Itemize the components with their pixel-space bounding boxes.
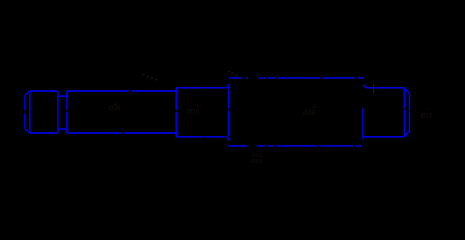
- section E bottom edge: [363, 136, 403, 138]
- left chamfer edge: [29, 91, 31, 133]
- D right face: [362, 108, 364, 140]
- leader above section D (faint): [228, 71, 241, 76]
- D left face: [228, 84, 230, 136]
- svg-text:Ø48: Ø48: [303, 109, 316, 116]
- left end face (dashed): [24, 95, 26, 129]
- D bottom-left shoulder diagonal: [227, 137, 230, 140]
- leader above section B (faint): [142, 74, 159, 81]
- right chamfer bottom diagonal: [404, 131, 409, 137]
- D/E top shoulder diagonal: [363, 85, 366, 88]
- section D top edge (dashed): [229, 77, 364, 79]
- groove bottom line: [58, 128, 67, 130]
- groove top line: [58, 95, 67, 97]
- groove right wall: [66, 91, 68, 133]
- section D bottom edge (dashed): [228, 145, 361, 147]
- groove left wall: [57, 91, 59, 133]
- right end face: [408, 94, 410, 131]
- svg-text:Ø26: Ø26: [109, 105, 122, 112]
- svg-text:Ø56: Ø56: [251, 159, 263, 165]
- svg-text:Ø35: Ø35: [187, 108, 200, 115]
- svg-text:Ø16: Ø16: [421, 113, 434, 120]
- left chamfer top diagonal: [25, 91, 30, 95]
- section B bottom edge: [67, 132, 176, 134]
- faint extension line over E top: [373, 84, 375, 94]
- section E top edge: [366, 87, 404, 89]
- svg-text:11: 11: [197, 102, 202, 107]
- section C top edge: [176, 87, 228, 89]
- right chamfer top diagonal: [404, 88, 409, 94]
- section B top edge: [67, 90, 176, 92]
- right chamfer edge: [403, 88, 405, 137]
- section A top edge: [30, 90, 58, 92]
- left chamfer bottom diagonal: [25, 129, 30, 133]
- svg-text:11: 11: [312, 103, 317, 108]
- section A bottom edge: [30, 132, 58, 134]
- B/C shoulder face: [175, 88, 177, 137]
- section C bottom edge: [176, 136, 227, 138]
- svg-text:11: 11: [257, 147, 262, 152]
